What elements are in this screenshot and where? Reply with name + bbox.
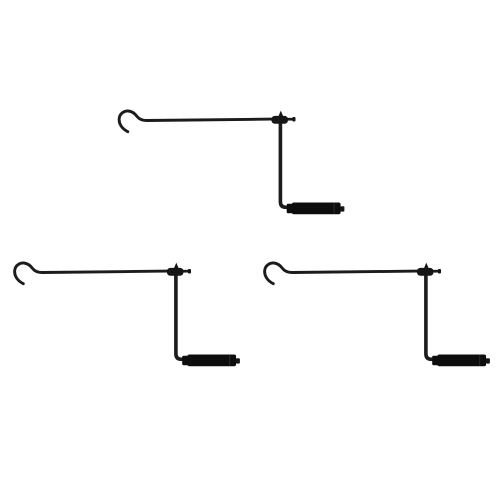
grip body: [437, 355, 486, 367]
grip cap ridge: [479, 355, 480, 366]
hook and horizontal rod: [119, 111, 272, 132]
swivel collar: [417, 268, 434, 276]
collar spike: [174, 263, 179, 269]
crank handle 1 (top center): [119, 111, 344, 215]
grip body: [292, 203, 341, 215]
grip left ferrule: [287, 204, 294, 213]
swivel collar: [167, 268, 184, 276]
stub rod right of collar: [182, 270, 191, 273]
stub end cap: [292, 117, 295, 122]
grip end nub: [486, 358, 490, 363]
vertical rod with bottom bend: [176, 272, 185, 359]
stub rod right of collar: [286, 118, 295, 121]
vertical rod with bottom bend: [426, 272, 435, 359]
stub end cap: [188, 269, 191, 274]
hook and horizontal rod: [265, 263, 418, 284]
grip left ferrule: [432, 356, 439, 365]
stub rod right of collar: [432, 270, 441, 273]
stub end cap: [438, 269, 441, 274]
swivel collar: [271, 116, 288, 124]
crank handle 3 (bottom right): [265, 263, 490, 367]
grip end nub: [236, 358, 240, 363]
grip cap ridge: [334, 203, 335, 214]
collar spike: [278, 111, 283, 117]
grip cap ridge: [229, 355, 230, 366]
vertical rod with bottom bend: [280, 120, 289, 207]
crank handle 2 (bottom left): [15, 263, 240, 367]
collar spike: [424, 263, 429, 269]
grip left ferrule: [182, 356, 189, 365]
grip body: [187, 355, 236, 367]
hook and horizontal rod: [15, 263, 168, 284]
grip end nub: [340, 206, 344, 211]
